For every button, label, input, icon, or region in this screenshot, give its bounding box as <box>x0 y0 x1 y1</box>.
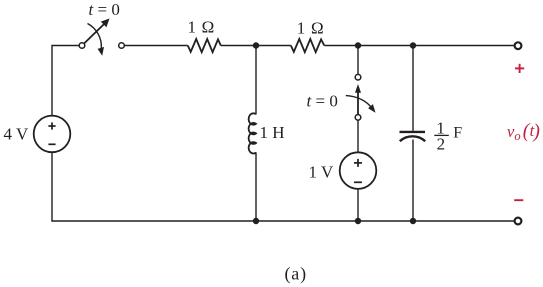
voltage source V2 1V circle <box>340 152 377 189</box>
output terminal bottom <box>515 218 522 225</box>
node B junction dot <box>355 42 361 48</box>
wire inductor branch lower <box>255 152 257 221</box>
wire inductor branch upper <box>255 46 257 115</box>
wire bottom rail <box>51 220 514 222</box>
svg-text:1 V: 1 V <box>309 162 334 181</box>
wire left rail lower <box>51 152 53 221</box>
voltage source V1 minus sign <box>48 143 55 145</box>
wire switch to R1 <box>124 45 187 47</box>
switch S2 blade with arrowhead <box>355 84 361 115</box>
wire R2 to right terminal <box>324 45 514 47</box>
resistor R1 <box>188 39 221 52</box>
svg-text:vo(t): vo(t) <box>507 121 540 143</box>
svg-text:(a): (a) <box>285 264 307 285</box>
switch S2 terminal lower <box>355 115 361 121</box>
wire switch branch upper <box>357 46 359 75</box>
node E junction dot bottom source <box>355 218 361 224</box>
wire R1 to R2 through node A <box>221 45 291 47</box>
capacitor C1 label 1/2 F <box>434 118 462 153</box>
svg-text:1 Ω: 1 Ω <box>188 17 215 36</box>
voltage source V2 plus sign <box>354 159 362 167</box>
wire 1V source lower <box>357 189 359 221</box>
capacitor C1 top plate <box>400 131 426 133</box>
svg-text:2: 2 <box>437 135 446 154</box>
wire capacitor branch lower <box>412 140 414 222</box>
svg-text:F: F <box>453 124 462 141</box>
switch S1 terminal right <box>119 43 125 49</box>
node D junction dot bottom inductor <box>253 218 259 224</box>
capacitor C1 curved plate <box>400 136 425 141</box>
svg-text:1 H: 1 H <box>260 123 285 142</box>
svg-text:t = 0: t = 0 <box>89 0 120 19</box>
wire 1V source to switch <box>357 120 359 152</box>
wire capacitor branch upper <box>412 46 414 131</box>
svg-text:1 Ω: 1 Ω <box>297 19 324 38</box>
voltage source V1 4V circle <box>34 116 71 153</box>
wire left rail upper <box>51 45 53 116</box>
switch S1 motion arc arrow <box>88 24 105 56</box>
node C junction dot <box>410 42 416 48</box>
switch S2 terminal upper <box>355 74 361 80</box>
svg-text:t = 0: t = 0 <box>307 91 338 110</box>
inductor L1 <box>249 113 256 153</box>
svg-text:4 V: 4 V <box>4 125 29 144</box>
node F junction dot bottom capacitor <box>410 218 416 224</box>
output plus sign red <box>515 64 524 73</box>
switch S1 blade with arrowhead <box>84 19 109 44</box>
voltage source V2 minus sign <box>354 181 362 183</box>
output terminal top <box>515 42 522 49</box>
output minus sign red <box>514 199 523 201</box>
node A junction dot <box>253 42 259 48</box>
wire top-left horizontal <box>52 45 79 47</box>
switch S2 motion arc arrow <box>346 96 376 113</box>
resistor R2 <box>291 39 324 52</box>
switch S1 terminal left <box>79 43 85 49</box>
voltage source V1 plus sign <box>48 122 55 129</box>
